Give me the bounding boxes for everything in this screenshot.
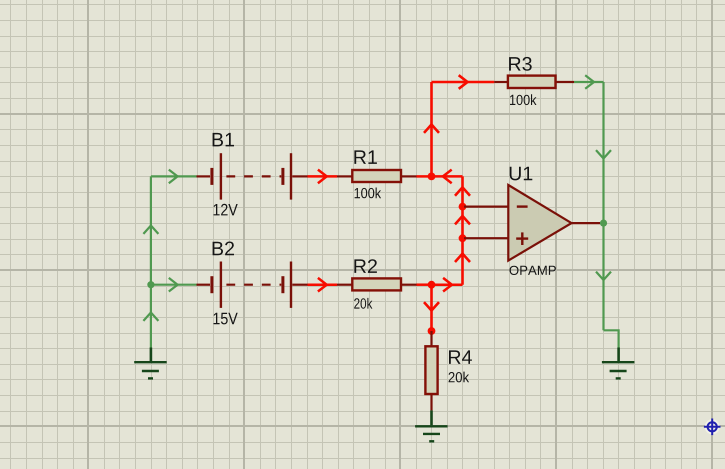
- resistor R3 100k: [494, 57, 574, 105]
- node plus input: [459, 234, 467, 242]
- value 100k: [510, 94, 537, 105]
- wire green R3 to right corner: [574, 75, 604, 89]
- op-amp U1: [464, 167, 600, 275]
- value 100k: [355, 188, 382, 199]
- value 15V: [214, 313, 238, 325]
- battery B2: [197, 242, 308, 325]
- wire red B1 to R1: [308, 170, 338, 184]
- wire left vertical green: [143, 176, 158, 348]
- resistor R1 100k: [337, 150, 417, 198]
- value 20k: [354, 298, 372, 309]
- label R4: [449, 350, 472, 364]
- battery B1: [197, 133, 308, 216]
- label U1: [510, 167, 533, 181]
- wire green to B1: [151, 170, 197, 184]
- wire green to B2: [151, 278, 197, 292]
- resistor R4 20k: [425, 331, 472, 410]
- node minus input: [459, 203, 467, 211]
- label R2: [354, 259, 377, 273]
- value 12V: [214, 204, 238, 216]
- ground left: [134, 348, 167, 379]
- ground right: [602, 348, 635, 379]
- label OPAMP: [510, 266, 556, 275]
- wire green jog to right ground: [604, 330, 619, 348]
- wire red node up to R3 level: [424, 82, 439, 176]
- node R1 junction: [428, 173, 436, 181]
- node opamp output green: [600, 220, 607, 227]
- wire red node down to R4: [424, 285, 439, 331]
- resistor R2 20k: [337, 259, 417, 309]
- value 20k: [449, 372, 470, 383]
- wire red R2 to node: [417, 283, 432, 286]
- label B1: [213, 133, 234, 147]
- label R1: [354, 150, 377, 164]
- wire green right vertical: [596, 82, 611, 330]
- wire red feed vertical: [455, 176, 470, 284]
- node junction green left: [147, 281, 154, 288]
- wire red node to feed vertical (row B): [432, 278, 463, 292]
- wire red to R3: [432, 75, 495, 89]
- label B2: [213, 242, 234, 256]
- node R2 junction: [428, 281, 436, 289]
- wire red node to feed vertical (row A): [432, 170, 463, 184]
- wire red R1 to node: [417, 175, 432, 178]
- origin marker: [704, 419, 721, 436]
- ground R4: [415, 410, 448, 441]
- wire red B2 to R2: [308, 278, 338, 292]
- label R3: [509, 57, 532, 71]
- node R4 top: [428, 327, 436, 335]
